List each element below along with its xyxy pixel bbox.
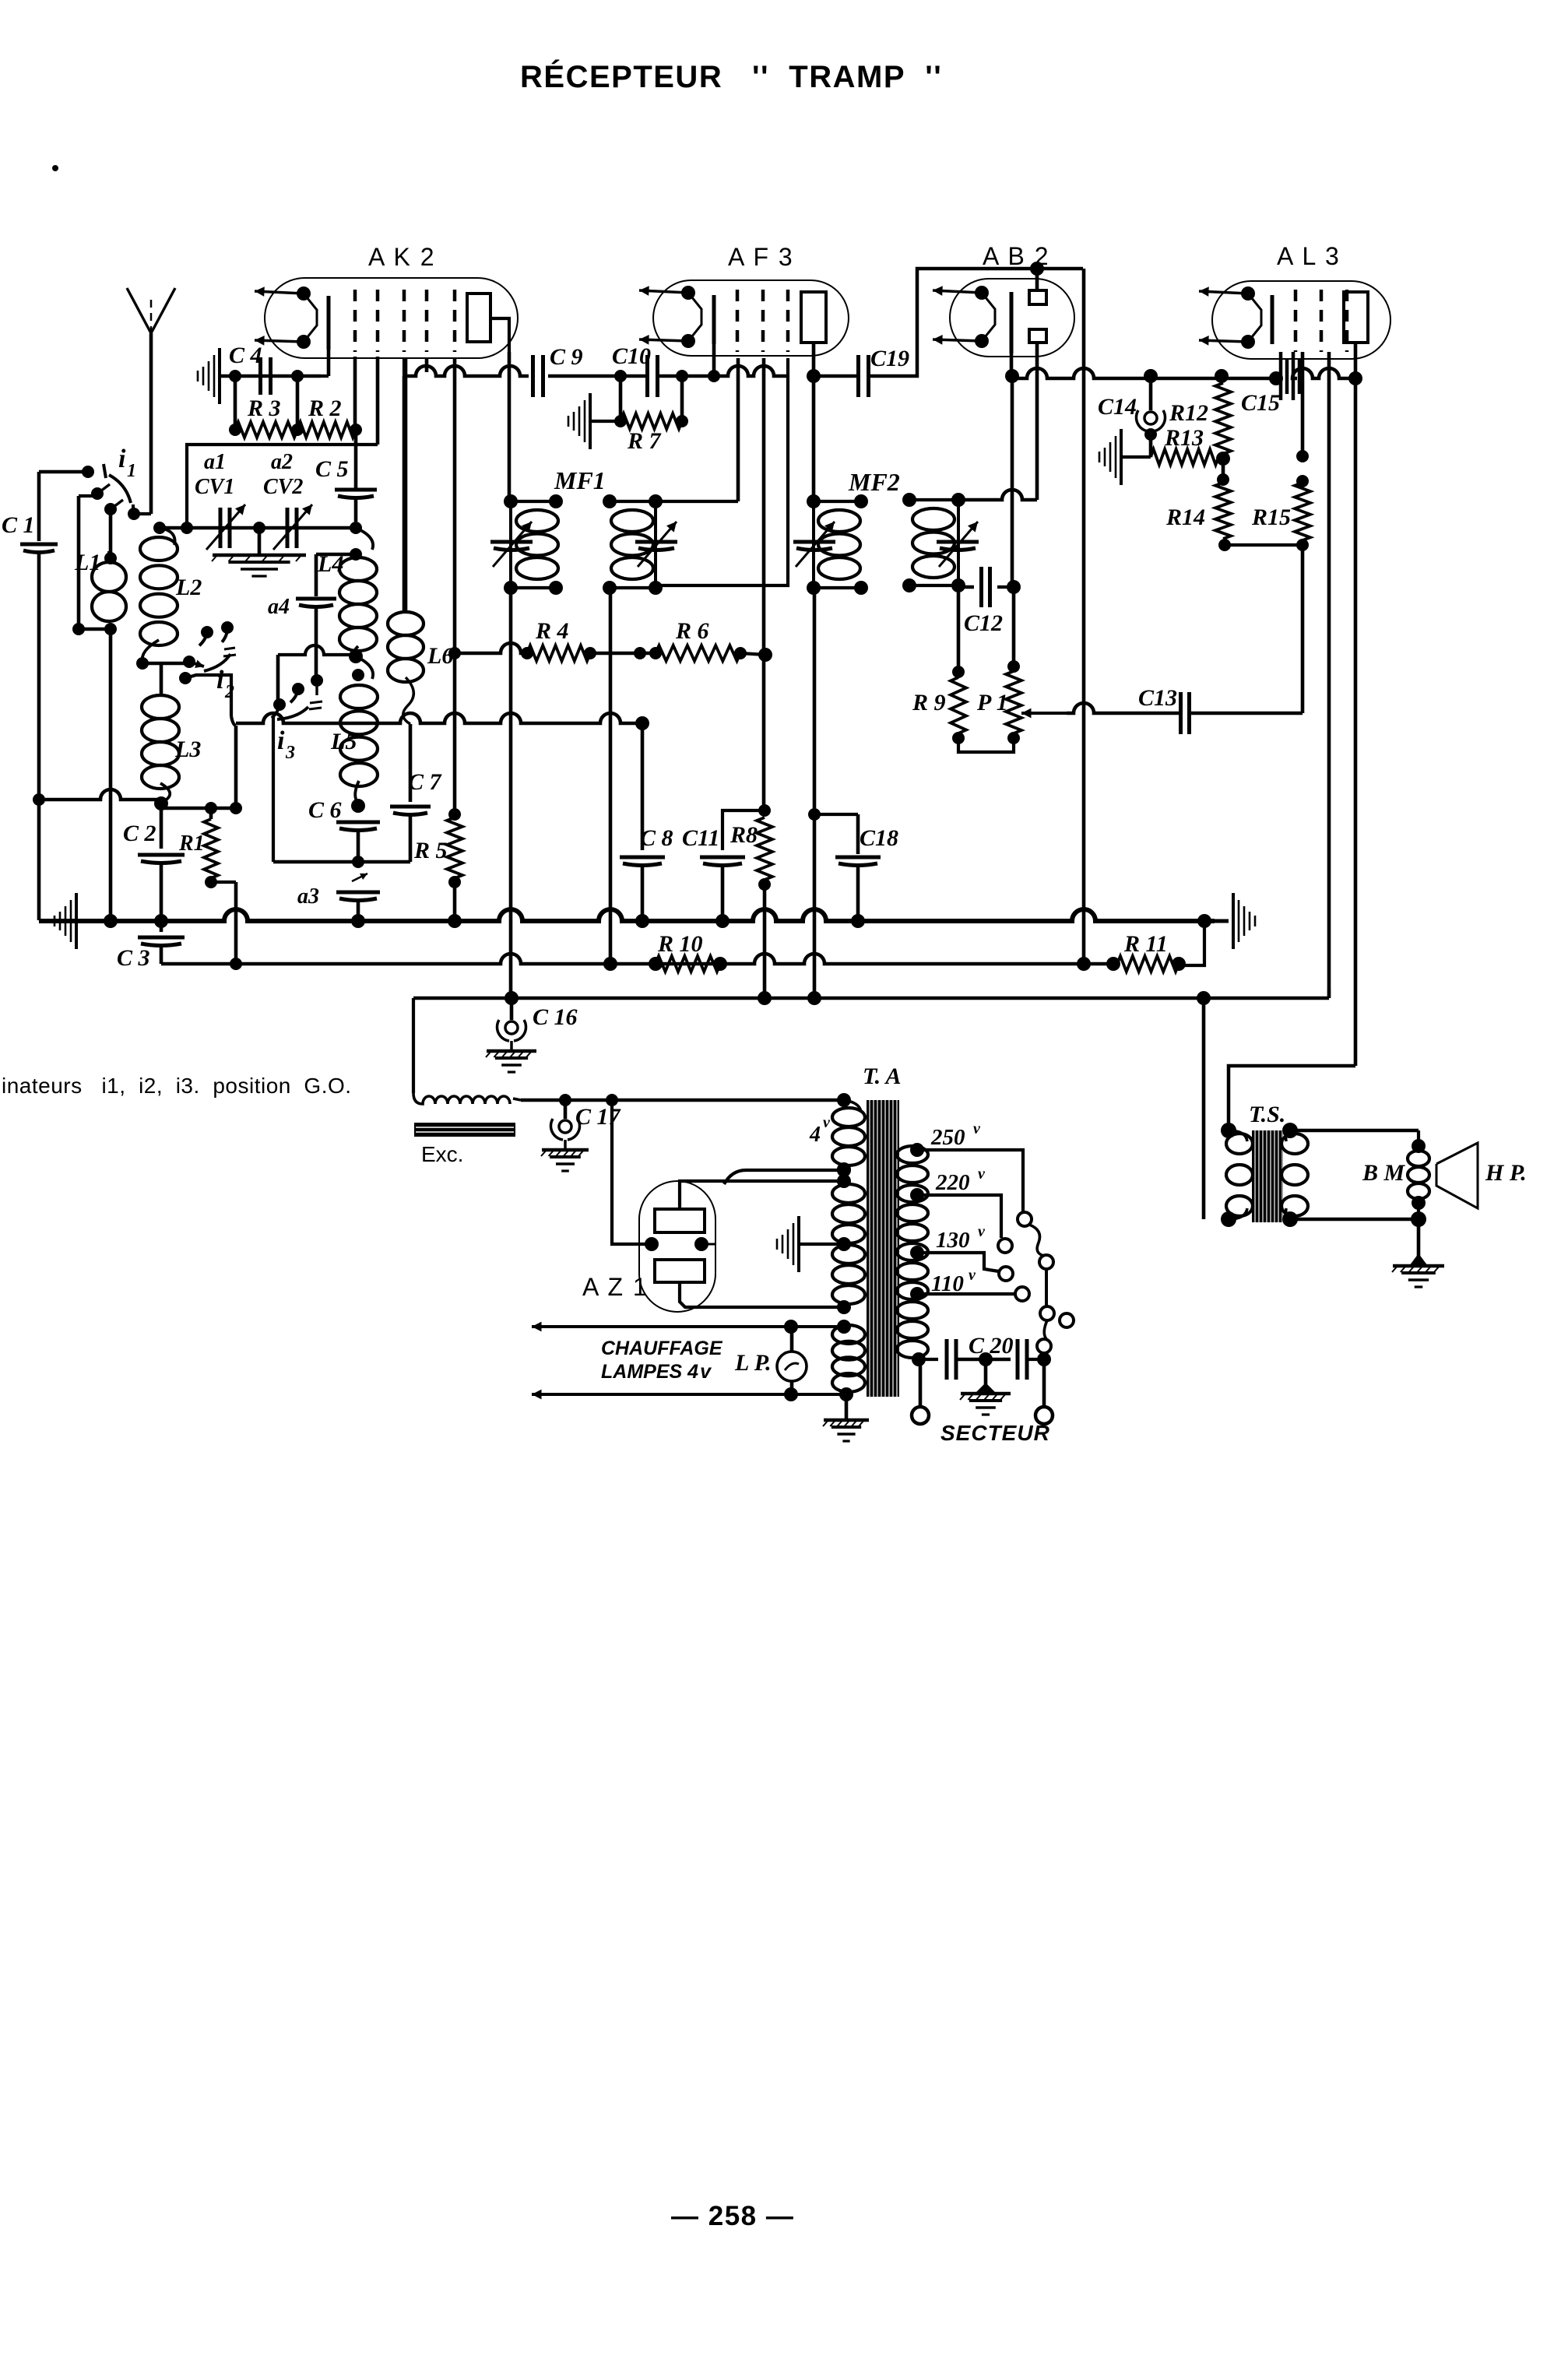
svg-text:v: v xyxy=(973,1120,981,1137)
capacitor C17 xyxy=(541,1100,621,1171)
svg-text:130: 130 xyxy=(936,1228,970,1253)
wire AB2 right side xyxy=(1082,269,1086,964)
svg-text:SECTEUR: SECTEUR xyxy=(940,1421,1050,1445)
svg-text:CHAUFFAGE: CHAUFFAGE xyxy=(601,1338,723,1359)
wire wiper hop xyxy=(0,0,1,1)
capacitor C4 xyxy=(229,343,271,395)
svg-text:L P.: L P. xyxy=(734,1350,772,1376)
ground TA bottom xyxy=(823,1394,869,1441)
wire avc line xyxy=(236,713,649,807)
wire C9-C10 xyxy=(548,370,645,382)
switch i2 arm xyxy=(204,654,230,671)
tube AK2 anode xyxy=(467,294,509,352)
ground AK2 input xyxy=(198,348,220,404)
wire R11 to bus xyxy=(1179,921,1204,965)
svg-text:250: 250 xyxy=(930,1125,965,1150)
tube AF3 label xyxy=(728,243,794,271)
tube AF3 anode xyxy=(801,292,826,343)
capacitor C14 xyxy=(1098,369,1165,457)
svg-text:R 10: R 10 xyxy=(657,931,703,957)
svg-text:C12: C12 xyxy=(964,610,1003,636)
wire L2 top riser xyxy=(160,445,378,528)
label SECTEUR xyxy=(940,1421,1050,1445)
capacitor C8 xyxy=(620,825,673,920)
tube AF3 cathode xyxy=(712,295,716,344)
resistor R12 xyxy=(1169,369,1231,466)
capacitor CV1 xyxy=(195,450,245,550)
transformer MF2 secondary xyxy=(902,493,965,592)
switch secteur arm xyxy=(1037,1313,1074,1359)
coil L2 xyxy=(140,528,202,662)
wire MF1 pri bottom xyxy=(509,588,513,998)
svg-text:C 1: C 1 xyxy=(2,512,35,538)
wire antenna stem xyxy=(134,333,151,514)
svg-text:inateurs i1, i2, i3. posi: inateurs i1, i2, i3. position G.O. xyxy=(2,1074,352,1098)
rectifier AZ1 envelope xyxy=(639,1181,715,1312)
svg-text:T. A: T. A xyxy=(863,1063,901,1089)
wire L4 bottom row xyxy=(278,645,363,701)
tube AL3 anode xyxy=(1344,292,1368,343)
trimmer MF1 primary xyxy=(490,522,533,567)
svg-text:RÉCEPTEUR '' TRAMP '': RÉCEPTEUR '' TRAMP '' xyxy=(520,59,942,94)
wire B+ line xyxy=(413,989,1329,1093)
terminal secteur left xyxy=(912,1359,929,1424)
transformer TS primary xyxy=(1221,1123,1253,1227)
wire AK2 anode to MF1 xyxy=(508,352,512,501)
wire C1 to L3 line xyxy=(33,789,161,806)
switch i1 arm xyxy=(109,475,140,520)
transformer TA core xyxy=(867,1100,899,1397)
capacitor C12 xyxy=(958,567,1021,636)
svg-text:C 9: C 9 xyxy=(550,344,583,370)
wire tap 110 xyxy=(917,1267,1014,1296)
switch i1 contact c xyxy=(104,500,123,515)
svg-text:3: 3 xyxy=(285,743,295,763)
wire MF1 sec bottom avc xyxy=(609,588,613,964)
node bus R5 xyxy=(448,914,462,928)
svg-text:R13: R13 xyxy=(1164,425,1204,451)
node bus C2 xyxy=(154,914,168,928)
wire i3 down xyxy=(272,716,275,862)
capacitor C5 xyxy=(315,430,377,534)
svg-text:H P.: H P. xyxy=(1485,1160,1527,1186)
resistor R10 xyxy=(649,931,727,972)
capacitor C6 xyxy=(308,797,380,862)
transformer MF1 label xyxy=(554,466,606,494)
wire g3 to L6 xyxy=(403,376,406,610)
svg-text:220: 220 xyxy=(935,1170,970,1195)
svg-text:A F 3: A F 3 xyxy=(728,243,794,271)
transformer MF1 secondary xyxy=(603,494,663,595)
ground HP xyxy=(1392,1219,1444,1287)
wire AB2 plate 2 to MF2 xyxy=(1035,343,1039,500)
svg-text:v: v xyxy=(978,1223,986,1240)
svg-text:CV1: CV1 xyxy=(195,475,234,499)
capacitor C1 xyxy=(2,512,58,553)
wire TS sec top xyxy=(1290,1130,1426,1153)
field coil Exc xyxy=(413,1093,521,1104)
wire B+ to TS top xyxy=(1202,998,1206,1219)
ground C14 xyxy=(1099,429,1151,485)
transformer TA primary 4V xyxy=(832,1100,865,1176)
wire AK2 grid bus xyxy=(404,358,529,376)
label chauffage xyxy=(601,1338,723,1383)
transformer TA primary heater xyxy=(832,1320,865,1401)
wire C15 to anode dot xyxy=(1292,368,1362,385)
wire R1 bottom xyxy=(211,882,236,964)
svg-text:Exc.: Exc. xyxy=(421,1142,463,1166)
wire C1 bottom xyxy=(37,554,41,920)
wire heater line bottom xyxy=(532,1387,846,1401)
label Exc xyxy=(421,1142,463,1166)
tube AK2 grids xyxy=(355,290,455,352)
wire R8 top to C11 xyxy=(722,810,765,850)
node bus C8 xyxy=(635,914,649,928)
node bus a3 xyxy=(351,914,365,928)
wire L3 to R1 xyxy=(161,802,242,814)
svg-text:a3: a3 xyxy=(297,884,319,909)
node C4 a xyxy=(229,370,241,430)
svg-text:v: v xyxy=(978,1165,986,1183)
transformer MF2 primary xyxy=(807,494,868,595)
svg-text:T.S.: T.S. xyxy=(1249,1102,1285,1127)
wire screen elbow xyxy=(656,358,788,585)
capacitor a3 xyxy=(297,874,380,920)
svg-text:C 7: C 7 xyxy=(408,769,442,795)
svg-text:C19: C19 xyxy=(870,346,909,371)
caption position G.O. xyxy=(2,1074,352,1098)
wire C1 top xyxy=(39,472,83,541)
capacitor C9 xyxy=(533,344,583,397)
trimmer MF2 primary xyxy=(793,522,835,567)
resistor R5 xyxy=(413,808,462,888)
capacitor C2 xyxy=(123,803,185,920)
wire TS sec bottom xyxy=(1290,1196,1426,1227)
wire screen bypass drop xyxy=(640,653,642,850)
voltage selector contacts xyxy=(998,1212,1032,1301)
wire g2 column xyxy=(762,358,766,810)
svg-text:R 2: R 2 xyxy=(308,395,342,421)
ground C20 xyxy=(960,1359,1011,1415)
trimmer MF2 secondary xyxy=(937,522,979,567)
coil L3 xyxy=(142,695,201,803)
title RECEPTEUR TRAMP xyxy=(520,59,942,94)
switch i1 label xyxy=(118,445,136,481)
capacitor C7 xyxy=(390,769,442,862)
capacitor C16 xyxy=(486,998,578,1072)
transformer MF2 label xyxy=(848,468,900,496)
wire tap 130 xyxy=(917,1223,999,1271)
node R10 left xyxy=(603,957,617,971)
wire R15 to C13 xyxy=(1301,545,1305,713)
switch i2 second pole xyxy=(179,672,236,726)
resistor R15 xyxy=(1251,450,1310,551)
svg-text:C 3: C 3 xyxy=(117,945,150,971)
wire L1 bottom xyxy=(72,623,117,920)
resistor R9 xyxy=(912,585,966,744)
ground TA center tap xyxy=(777,1216,851,1272)
wire P1 wiper xyxy=(1021,703,1180,718)
svg-text:CV2: CV2 xyxy=(263,475,303,499)
transformer TS label xyxy=(1249,1102,1285,1127)
terminal secteur right xyxy=(1035,1359,1053,1424)
speaker BM voice coil xyxy=(1362,1151,1429,1199)
capacitor C10 xyxy=(612,343,658,397)
svg-text:R1: R1 xyxy=(178,831,205,856)
wire MF2 sec top xyxy=(958,490,1037,500)
resistor R1 xyxy=(178,808,218,888)
node AB2 return xyxy=(1077,957,1091,971)
svg-text:a4: a4 xyxy=(268,595,290,619)
selector link xyxy=(1040,1269,1054,1320)
svg-text:C 17: C 17 xyxy=(575,1104,621,1130)
wire AZ1 cathode top xyxy=(724,1163,851,1184)
wire AL3 anode xyxy=(1354,343,1358,378)
wire AL3 anode down xyxy=(1354,378,1358,1066)
rectifier AZ1 filament xyxy=(639,1237,715,1251)
resistor R13 xyxy=(1151,425,1223,465)
svg-text:C13: C13 xyxy=(1138,685,1177,711)
svg-text:R 5: R 5 xyxy=(413,838,448,863)
svg-text:R 11: R 11 xyxy=(1123,931,1168,957)
node CV junction xyxy=(153,522,265,534)
svg-text:a1: a1 xyxy=(204,450,226,474)
tube AK2 envelope xyxy=(265,278,518,358)
wire C4 row xyxy=(220,350,329,376)
svg-text:L1: L1 xyxy=(74,550,100,575)
svg-text:A L 3: A L 3 xyxy=(1277,242,1341,270)
transformer TA label xyxy=(863,1063,901,1089)
transformer TS core xyxy=(1252,1130,1283,1222)
wire AZ1 anode 2 xyxy=(680,1282,851,1314)
node C4 b xyxy=(291,370,304,430)
potentiometer P1 xyxy=(976,587,1021,744)
svg-text:R 3: R 3 xyxy=(247,395,281,421)
capacitor a4 xyxy=(268,548,362,676)
switch i2 contacts xyxy=(199,621,236,656)
wire avc bus xyxy=(161,954,1113,970)
capacitor C13 xyxy=(1138,685,1303,734)
wire g4 stub xyxy=(425,358,429,372)
svg-text:i: i xyxy=(216,666,224,694)
wire L2-L3 link xyxy=(160,663,163,695)
svg-text:R14: R14 xyxy=(1165,504,1205,530)
svg-text:C14: C14 xyxy=(1098,394,1137,420)
transformer TA primary HT xyxy=(832,1184,865,1307)
svg-text:LAMPES 4 v: LAMPES 4 v xyxy=(601,1361,712,1383)
wire AF3 anode down xyxy=(807,343,821,501)
wire screen feed line xyxy=(448,643,533,659)
capacitor C19 xyxy=(814,269,1083,397)
speaker HP cone xyxy=(1436,1143,1527,1208)
svg-text:— 258 —: — 258 — xyxy=(671,2201,794,2231)
ground right brush xyxy=(1197,893,1255,949)
wire AB2 cathode down xyxy=(1005,353,1019,587)
svg-text:R15: R15 xyxy=(1251,504,1291,530)
resistor R14 xyxy=(1165,459,1231,551)
label 4v xyxy=(809,1114,831,1147)
svg-text:C 16: C 16 xyxy=(533,1004,578,1030)
resistor R3 xyxy=(229,395,297,438)
resistor R2 xyxy=(291,357,378,445)
wire CV row xyxy=(160,526,356,530)
tube AK2 cathode xyxy=(327,296,331,350)
lamp LP xyxy=(734,1327,807,1394)
svg-text:C 4: C 4 xyxy=(229,343,262,368)
svg-text:R 7: R 7 xyxy=(627,428,662,454)
svg-text:i: i xyxy=(118,445,126,473)
capacitor C18 xyxy=(814,814,898,921)
svg-text:L2: L2 xyxy=(175,575,202,600)
svg-text:1: 1 xyxy=(127,461,136,481)
svg-text:A Z 1: A Z 1 xyxy=(582,1273,649,1301)
svg-text:MF1: MF1 xyxy=(554,466,606,494)
node bus L1 xyxy=(104,914,118,928)
wire AZ1 filament left xyxy=(612,1100,652,1244)
node bus C11 xyxy=(715,914,730,928)
transformer TS secondary xyxy=(1281,1123,1308,1227)
tube AB2 envelope xyxy=(950,279,1074,357)
capacitor C3 xyxy=(117,921,185,971)
tube AL3 heater electrode xyxy=(1199,287,1261,349)
coil L4 xyxy=(317,528,377,656)
wire AL3 g3 down xyxy=(1327,352,1331,998)
wire MF1 sec top to grid xyxy=(656,358,738,501)
capacitor C11 xyxy=(682,825,745,920)
wire R8 bottom xyxy=(763,884,767,998)
wire g2 AL3 down xyxy=(1301,352,1305,456)
wire AL3 grid bus xyxy=(1012,368,1283,385)
svg-text:i: i xyxy=(277,726,285,755)
wire R6 right xyxy=(740,648,772,662)
svg-text:C 6: C 6 xyxy=(308,797,342,823)
wire R9 P1 bottom xyxy=(958,733,1014,752)
svg-text:C 8: C 8 xyxy=(640,825,673,851)
capacitor C20 xyxy=(947,1333,1051,1380)
svg-text:v: v xyxy=(823,1114,831,1131)
wire Exc to TA xyxy=(521,1093,851,1107)
svg-text:C18: C18 xyxy=(860,825,898,851)
wire tap 220 xyxy=(917,1165,1001,1238)
node L3 bottom xyxy=(154,796,168,810)
tube AB2 cathode xyxy=(1010,292,1014,353)
svg-text:v: v xyxy=(969,1267,976,1284)
tube AK2 heater electrode xyxy=(255,287,317,349)
wire contact b to L1 left xyxy=(79,496,97,629)
rectifier AZ1 plates xyxy=(655,1209,705,1282)
ground left brush xyxy=(54,893,76,949)
svg-text:C10: C10 xyxy=(612,343,651,369)
switch i1 contact a xyxy=(82,464,106,478)
resistor R8 xyxy=(730,804,772,891)
svg-text:R8: R8 xyxy=(730,822,758,848)
coil L6 xyxy=(388,358,453,802)
resistor R7 xyxy=(614,376,688,454)
capacitor CV2 xyxy=(263,450,312,550)
svg-text:R 4: R 4 xyxy=(535,618,569,644)
wire MF2 pri bottom xyxy=(808,588,821,998)
wire R4-R6 xyxy=(590,647,656,659)
resistor R11 xyxy=(1106,931,1186,972)
wire AB2 plate 1 xyxy=(1030,262,1044,290)
svg-text:C11: C11 xyxy=(682,825,719,851)
capacitor C15 xyxy=(1241,352,1299,416)
tube AL3 grids xyxy=(1296,290,1347,352)
svg-text:B M: B M xyxy=(1362,1160,1406,1186)
rectifier AZ1 label xyxy=(582,1273,649,1301)
svg-text:C 2: C 2 xyxy=(123,821,156,846)
wire AZ1 anode 1 xyxy=(680,1174,851,1209)
wire g5 column xyxy=(453,358,457,920)
wire R14-R15 bottom xyxy=(1225,543,1303,547)
wire contact c to L1 xyxy=(109,509,113,562)
resistor R4 xyxy=(527,618,596,661)
switch i3 contacts xyxy=(272,674,323,718)
tube AB2 diode plates xyxy=(1029,290,1046,343)
transformer MF1 primary xyxy=(504,494,563,595)
tube AL3 label xyxy=(1277,242,1341,270)
tube AB2 heater electrode xyxy=(933,286,995,348)
field magnet bar xyxy=(414,1123,515,1137)
trimmer MF1 secondary xyxy=(635,522,677,567)
voltage selector arm xyxy=(1029,1225,1053,1269)
svg-text:C 5: C 5 xyxy=(315,456,349,482)
svg-text:a2: a2 xyxy=(271,450,293,474)
tube AL3 cathode xyxy=(1271,295,1274,344)
wire plate to TS xyxy=(1229,1066,1355,1127)
wire TA sec bottom xyxy=(919,1358,938,1361)
tube AF3 envelope xyxy=(653,280,849,356)
svg-text:R12: R12 xyxy=(1169,400,1208,426)
coil L1 xyxy=(74,550,126,621)
tube AF3 grids xyxy=(737,290,788,352)
resistor R6 xyxy=(649,618,747,661)
switch i2 label xyxy=(216,666,234,702)
page number 258 xyxy=(52,165,794,2231)
tube AK2 label xyxy=(368,243,436,271)
svg-text:C15: C15 xyxy=(1241,390,1280,416)
node bus C18 xyxy=(851,914,865,928)
wire heater line top xyxy=(532,1320,844,1334)
svg-text:R 6: R 6 xyxy=(675,618,709,644)
transformer TA secondary xyxy=(897,1143,928,1366)
switch i3 arm xyxy=(277,707,308,719)
switch i1 contact b xyxy=(91,484,110,500)
tube AL3 envelope xyxy=(1212,281,1390,359)
wire L5 box bottom xyxy=(273,856,410,868)
wire C10 right xyxy=(656,344,788,382)
svg-text:C 20: C 20 xyxy=(969,1333,1014,1359)
tube AB2 label xyxy=(983,242,1050,270)
ground R7 xyxy=(568,393,621,449)
svg-text:4: 4 xyxy=(809,1123,821,1147)
svg-text:R 9: R 9 xyxy=(912,690,946,715)
antenna xyxy=(127,288,175,333)
svg-text:MF2: MF2 xyxy=(848,468,900,496)
wire L2 bottom row xyxy=(136,656,204,670)
tube AF3 heater electrode xyxy=(639,286,701,348)
coil L5 xyxy=(330,656,378,803)
svg-text:A K 2: A K 2 xyxy=(368,243,436,271)
ground under CV xyxy=(212,528,306,576)
wire tap 250 xyxy=(917,1120,1023,1211)
switch i3 label xyxy=(277,726,295,763)
ground bus xyxy=(39,909,1215,921)
